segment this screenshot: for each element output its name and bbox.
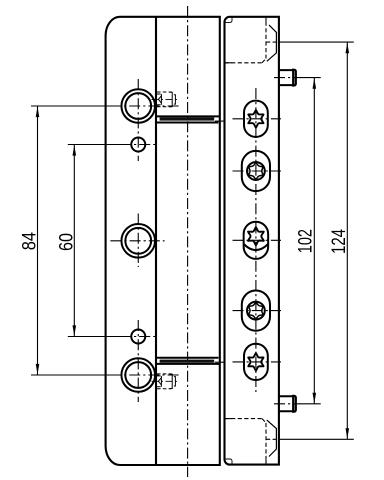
pocket corner chamfer top: [267, 25, 277, 61]
dim 124 arrow bottom: [346, 428, 350, 439]
dim 102 extension top: [299, 77, 321, 79]
screw column centerline: [255, 88, 257, 392]
dim 60 arrow bottom: [73, 325, 77, 336]
leaf plate outline: [106, 17, 220, 465]
svg-text:84: 84: [20, 232, 41, 251]
screw 1 slot: [244, 101, 268, 137]
screw 2 torx recess: [249, 163, 264, 180]
screw 3 centerline: [233, 239, 282, 241]
pocket vertical bottom (hidden): [265, 423, 267, 460]
bearing bush bottom outer: [121, 358, 155, 392]
screw 1 centerline: [233, 118, 282, 120]
pocket depth edge bottom (hidden): [266, 438, 279, 440]
svg-text:60: 60: [56, 233, 77, 251]
knuckle gap top hatch: [160, 118, 215, 121]
centerline middle bush vertical: [137, 214, 139, 268]
dim 124 arrow top: [346, 43, 350, 54]
dim 60 line: [73, 145, 75, 337]
pocket vertical stub top: [265, 18, 267, 22]
centerline top bush horizontal: [110, 105, 180, 107]
dim 84 line: [37, 106, 39, 375]
screw 2 head: [247, 162, 265, 180]
pocket chamfer diag bottom (hidden): [262, 419, 266, 423]
screw 2 centerline: [233, 170, 282, 172]
knuckle gap bottom edge: [156, 363, 220, 365]
pocket depth edge top (hidden): [266, 41, 279, 43]
dim 84 arrow bottom: [36, 364, 40, 375]
screw 4 head: [247, 302, 265, 320]
screw 3 seat arc: [244, 244, 268, 250]
knuckle gap bottom upper edge: [156, 357, 218, 359]
pocket chamfer diag top (hidden): [262, 59, 266, 63]
knuckle gap bottom hatch: [160, 360, 215, 363]
centerline top bush vertical: [137, 79, 139, 161]
bearing bush middle outer: [121, 224, 155, 258]
plate corner step top: [225, 18, 233, 23]
plate corner step bottom: [225, 459, 233, 464]
set screw top (hidden): [152, 92, 179, 107]
pin hole bottom: [131, 330, 145, 344]
knuckle gap top edge: [156, 115, 220, 117]
dim 84 arrow top: [36, 107, 40, 118]
screw 3 slot: [244, 222, 269, 259]
pin hole top: [131, 138, 145, 152]
locating pin top: [279, 70, 293, 85]
pocket edge bottom (hidden): [225, 418, 263, 420]
pin bottom centerline: [274, 403, 300, 405]
screw 4 slot: [242, 291, 270, 331]
screw 1 torx: [248, 110, 263, 128]
dim 124 extension bottom: [279, 438, 354, 440]
knuckle gap bottom step: [215, 361, 225, 363]
bearing bush bottom inner: [125, 362, 151, 388]
dim 84 extension top: [31, 105, 119, 107]
pocket vertical stub bottom: [265, 460, 267, 464]
knuckle gap top lower edge: [156, 122, 218, 124]
dim 60 arrow top: [73, 145, 77, 156]
bearing bush top outer: [121, 89, 155, 123]
screw 4 centerline: [233, 310, 282, 312]
dim 124 line: [346, 42, 348, 439]
centerline hole bottom horizontal: [120, 336, 158, 338]
set screw bottom (hidden): [152, 374, 179, 389]
dim 102 arrow top: [313, 78, 317, 89]
bearing bush top inner: [125, 93, 151, 119]
svg-text:102: 102: [296, 229, 317, 253]
pocket vertical top (hidden): [265, 22, 267, 59]
pocket corner chamfer bottom: [267, 420, 277, 456]
centerline middle bush horizontal: [110, 240, 164, 242]
centerline bottom bush vertical: [137, 320, 139, 402]
screw 3 torx: [248, 227, 264, 245]
dim 102 line: [313, 78, 315, 404]
dim 102 extension bottom: [299, 403, 321, 405]
dim 60 extension top: [68, 144, 126, 146]
knuckle divider line: [155, 17, 157, 465]
hinge axis centerline: [187, 6, 189, 477]
dim 102 arrow bottom: [313, 393, 317, 404]
centerline bottom bush horizontal: [110, 374, 180, 376]
svg-text:124: 124: [329, 229, 350, 254]
pin top centerline: [274, 77, 300, 79]
bearing bush middle inner: [125, 228, 151, 254]
dim 124 extension top: [279, 41, 354, 43]
centerline hole top horizontal: [120, 144, 158, 146]
knuckle gap top step: [215, 120, 225, 122]
screw 4 torx recess: [249, 302, 264, 319]
frame plate outline: [225, 17, 279, 465]
screw 5 centerline: [233, 361, 282, 363]
dim 84 extension bottom: [31, 374, 119, 376]
pocket edge top (hidden): [225, 62, 263, 64]
screw 5 slot: [244, 344, 268, 380]
screw 5 torx: [248, 353, 263, 371]
locating pin bottom: [279, 396, 293, 411]
screw 2 slot: [242, 151, 270, 191]
dim 60 extension bottom: [68, 336, 126, 338]
